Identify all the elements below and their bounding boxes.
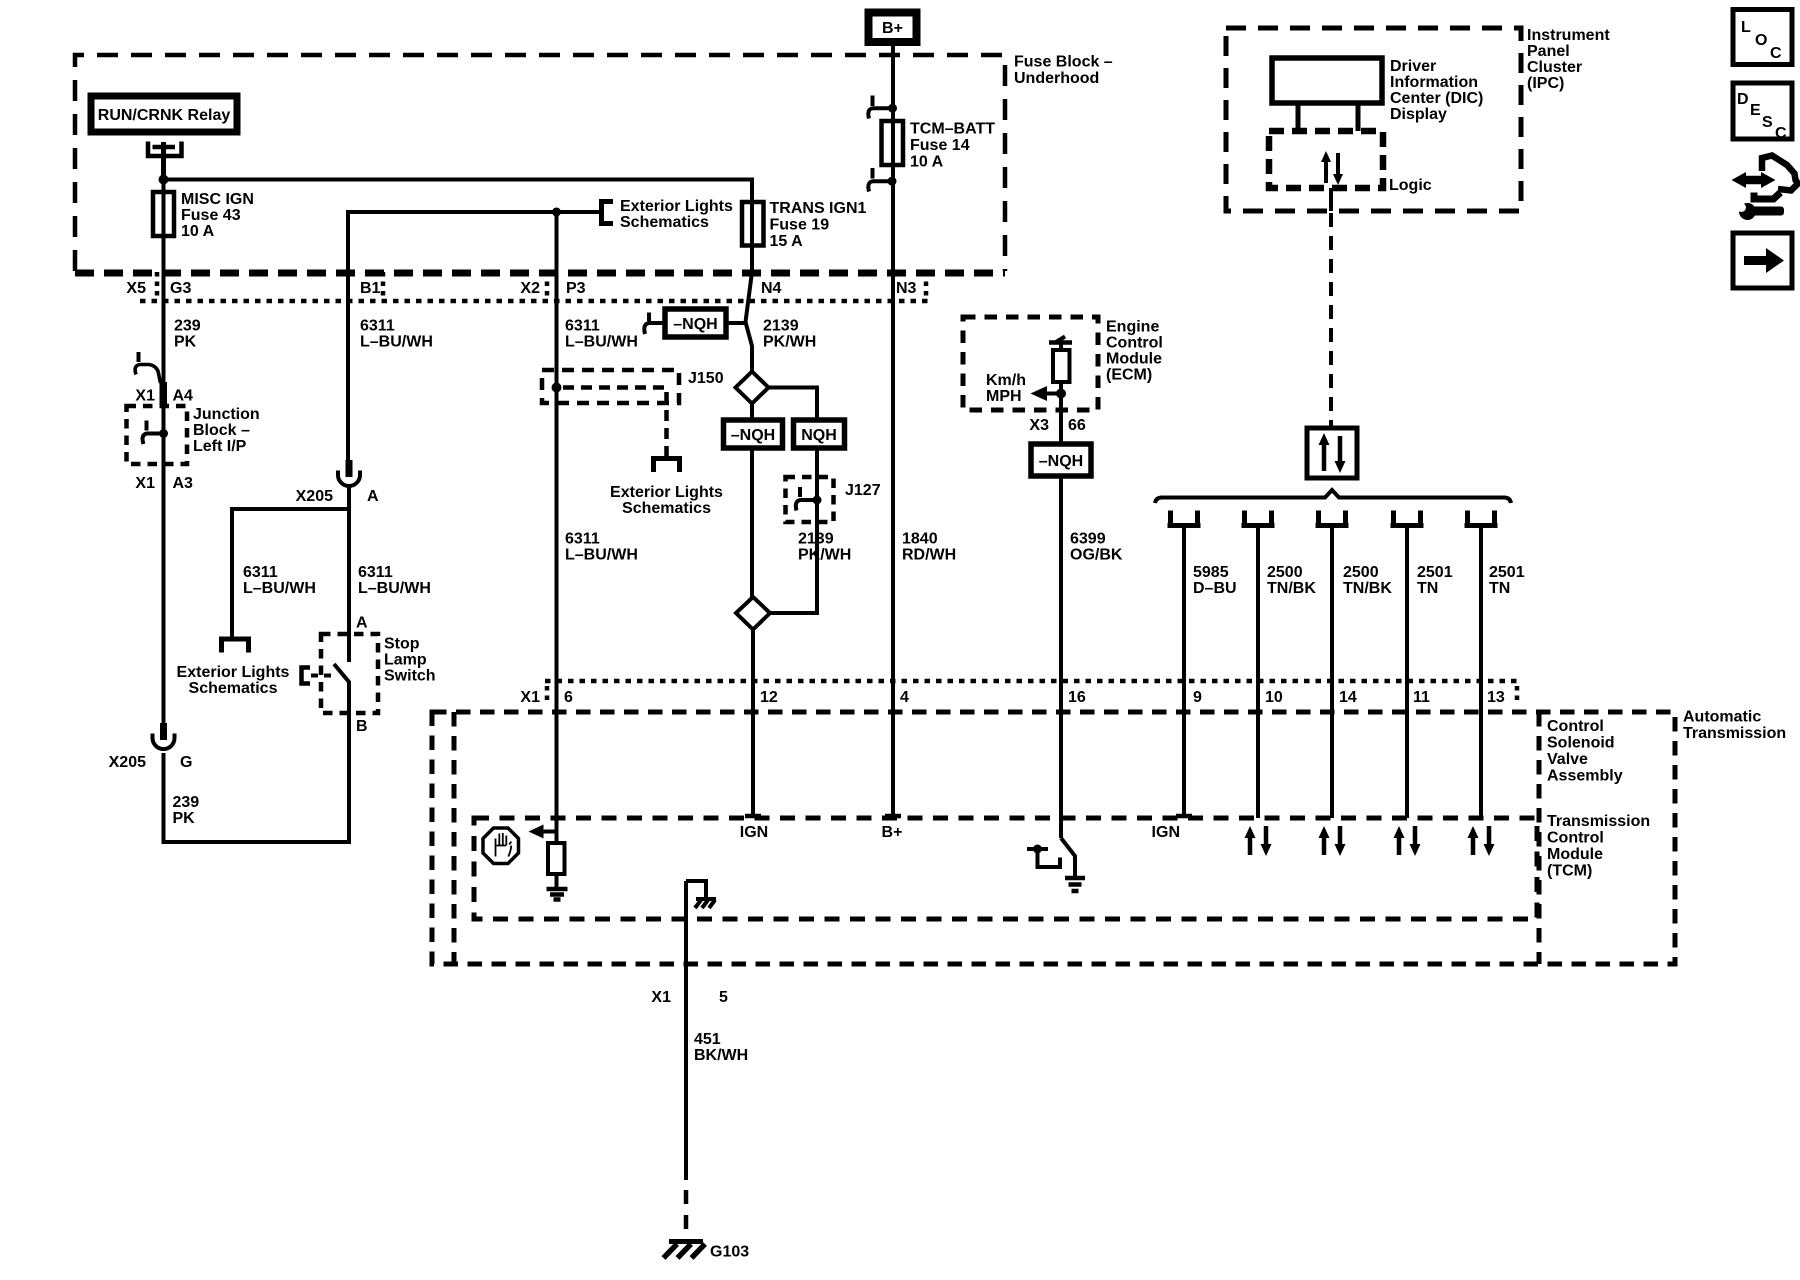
svg-text:OG/BK: OG/BK bbox=[1070, 547, 1123, 564]
wire 6311 L-BU/WH B1 branch bbox=[348, 212, 601, 460]
label 239 PK lower bbox=[173, 794, 200, 827]
svg-text:G103: G103 bbox=[710, 1244, 749, 1261]
svg-text:2501: 2501 bbox=[1489, 564, 1525, 581]
svg-text:4: 4 bbox=[900, 689, 909, 706]
node: relay output junction bbox=[159, 175, 169, 185]
relay contact symbol bbox=[148, 142, 182, 180]
svg-text:PK/WH: PK/WH bbox=[798, 547, 851, 564]
node: diamond splice upper bbox=[736, 372, 769, 404]
junction block left I/P bbox=[127, 406, 260, 473]
chassis ground in TCM bbox=[686, 881, 716, 908]
terminal flare IGN bbox=[745, 814, 761, 819]
ground in TCM (pin 16) bbox=[1065, 878, 1085, 891]
label 6311 L-BU/WH (branch) bbox=[243, 564, 316, 597]
svg-text:Block –: Block – bbox=[193, 422, 250, 439]
fuse F43 MISC IGN bbox=[153, 180, 254, 241]
svg-text:Driver: Driver bbox=[1390, 58, 1436, 75]
svg-text:A4: A4 bbox=[173, 388, 194, 405]
svg-text:1840: 1840 bbox=[902, 531, 938, 548]
svg-text:S: S bbox=[1762, 114, 1773, 131]
terminal flare B+ bbox=[885, 814, 901, 819]
connector clip X1 A4 bbox=[135, 352, 167, 406]
arrows solenoid pin11 bbox=[1394, 826, 1421, 856]
svg-text:TRANS IGN1: TRANS IGN1 bbox=[770, 200, 867, 217]
svg-text:Instrument: Instrument bbox=[1527, 27, 1610, 44]
svg-text:TN: TN bbox=[1489, 580, 1510, 597]
label 6311 L-BU/WH (P3) bbox=[565, 318, 638, 351]
svg-text:RD/WH: RD/WH bbox=[902, 547, 956, 564]
symbol NQH (right) bbox=[794, 420, 845, 448]
TCM labels bbox=[1547, 718, 1650, 880]
wire 2501 TN a bbox=[1405, 527, 1409, 818]
terminal pin 11 bbox=[1391, 511, 1424, 526]
wire: splice to stop lamp A bbox=[347, 486, 351, 662]
svg-text:A: A bbox=[356, 615, 368, 632]
logic block bbox=[1269, 131, 1432, 194]
connector separators row2 bbox=[547, 686, 1517, 704]
svg-text:6311: 6311 bbox=[358, 564, 393, 581]
TCM inner solenoid box bbox=[474, 818, 1537, 919]
svg-text:TN/BK: TN/BK bbox=[1343, 580, 1392, 597]
ground G103 bbox=[664, 1242, 750, 1261]
svg-text:Schematics: Schematics bbox=[620, 214, 709, 231]
svg-text:Lamp: Lamp bbox=[384, 652, 427, 669]
svg-text:6399: 6399 bbox=[1070, 531, 1106, 548]
svg-text:Exterior Lights: Exterior Lights bbox=[177, 664, 290, 681]
svg-text:Fuse 14: Fuse 14 bbox=[910, 137, 970, 154]
sensor element in ECM bbox=[1049, 337, 1072, 383]
svg-text:Center (DIC): Center (DIC) bbox=[1390, 90, 1483, 107]
svg-text:MPH: MPH bbox=[986, 388, 1022, 405]
svg-text:Km/h: Km/h bbox=[986, 372, 1026, 389]
fuse clip upper bbox=[868, 96, 897, 119]
svg-text:Information: Information bbox=[1390, 74, 1478, 91]
wire 239 PK upper segment bbox=[162, 236, 166, 384]
svg-text:239: 239 bbox=[174, 318, 201, 335]
label 239 PK bbox=[174, 318, 201, 351]
fuse block underhood box bbox=[75, 55, 1005, 273]
terminal pin 10 bbox=[1242, 511, 1275, 526]
svg-text:N4: N4 bbox=[761, 280, 782, 297]
svg-text:16: 16 bbox=[1068, 689, 1086, 706]
svg-text:G3: G3 bbox=[170, 280, 191, 297]
label 2500 TN/BK a bbox=[1267, 564, 1316, 597]
svg-text:5985: 5985 bbox=[1193, 564, 1229, 581]
svg-text:9: 9 bbox=[1193, 689, 1202, 706]
switch S1 stop lamp bbox=[302, 615, 436, 736]
svg-text:C: C bbox=[1770, 45, 1782, 62]
connector separators row1 bbox=[157, 272, 926, 300]
svg-text:B+: B+ bbox=[882, 20, 903, 37]
label 5985 D-BU bbox=[1193, 564, 1237, 597]
svg-text:B: B bbox=[356, 718, 368, 735]
wire 2501 TN b bbox=[1479, 527, 1483, 818]
svg-text:Control: Control bbox=[1547, 718, 1604, 735]
svg-text:6311: 6311 bbox=[565, 531, 600, 548]
wire branch via NQH bbox=[769, 388, 818, 614]
svg-text:451: 451 bbox=[694, 1031, 721, 1048]
fuse F14 TCM-BATT bbox=[882, 121, 996, 193]
svg-text:Transmission: Transmission bbox=[1683, 725, 1786, 742]
wire 6399 OG/BK bbox=[1059, 382, 1063, 838]
svg-text:Switch: Switch bbox=[384, 668, 436, 685]
node: diamond splice lower bbox=[736, 597, 770, 630]
bracket: exterior lights schematics (left) bbox=[177, 639, 290, 697]
svg-text:D–BU: D–BU bbox=[1193, 580, 1237, 597]
svg-text:D: D bbox=[1737, 91, 1749, 108]
switch to ground in TCM (pin 16) bbox=[1027, 838, 1075, 878]
svg-text:L–BU/WH: L–BU/WH bbox=[243, 580, 316, 597]
svg-text:(TCM): (TCM) bbox=[1547, 863, 1592, 880]
module ECM box bbox=[963, 317, 1163, 410]
svg-text:L–BU/WH: L–BU/WH bbox=[360, 334, 433, 351]
harness connector line row1 bbox=[140, 299, 933, 304]
label 6311 L-BU/WH (B1) bbox=[360, 318, 433, 351]
svg-text:P3: P3 bbox=[566, 280, 586, 297]
svg-text:Schematics: Schematics bbox=[622, 500, 711, 517]
svg-text:–NQH: –NQH bbox=[1039, 453, 1083, 470]
svg-text:X2: X2 bbox=[520, 280, 540, 297]
wire: B+ to TCM-BATT fuse bbox=[891, 46, 895, 125]
connector row2 pin labels bbox=[520, 689, 1504, 706]
svg-text:J127: J127 bbox=[845, 482, 881, 499]
svg-text:Panel: Panel bbox=[1527, 43, 1570, 60]
svg-text:6311: 6311 bbox=[360, 318, 395, 335]
icon DESC box bbox=[1733, 83, 1792, 142]
splice pack J150 bbox=[542, 370, 724, 447]
wire 2500 TN/BK a bbox=[1256, 527, 1260, 818]
arrows solenoid pin10 bbox=[1245, 826, 1272, 856]
svg-text:Valve: Valve bbox=[1547, 751, 1588, 768]
svg-text:12: 12 bbox=[760, 689, 778, 706]
svg-text:14: 14 bbox=[1339, 689, 1357, 706]
wire: serial data (dashed) bbox=[1329, 213, 1333, 428]
svg-text:2501: 2501 bbox=[1417, 564, 1453, 581]
label 451 BK/WH bbox=[694, 1031, 748, 1064]
wire: relay bus to TRANS IGN1 bbox=[164, 180, 753, 203]
svg-text:2500: 2500 bbox=[1267, 564, 1303, 581]
bracket: exterior lights schematics (top) bbox=[599, 198, 733, 231]
connector labels X1 5 bbox=[651, 989, 728, 1006]
fuse F19 TRANS IGN1 bbox=[742, 200, 867, 250]
svg-text:(IPC): (IPC) bbox=[1527, 75, 1564, 92]
wire 2139 PK/WH upper bbox=[746, 246, 753, 373]
label 2139 PK/WH lower bbox=[798, 531, 851, 564]
label B+ pin4 bbox=[882, 824, 903, 841]
svg-text:Assembly: Assembly bbox=[1547, 768, 1623, 785]
svg-text:239: 239 bbox=[173, 794, 200, 811]
bracket: exterior lights schematics (J150) bbox=[610, 447, 723, 517]
wire 5985 D-BU bbox=[1182, 527, 1186, 816]
svg-text:TCM–BATT: TCM–BATT bbox=[910, 121, 995, 138]
svg-text:6: 6 bbox=[564, 689, 573, 706]
node: X2 tap junction bbox=[552, 208, 561, 217]
svg-text:Cluster: Cluster bbox=[1527, 59, 1582, 76]
svg-text:NQH: NQH bbox=[801, 427, 837, 444]
wire: X205 G to stop lamp switch B bbox=[164, 711, 350, 842]
module IPC box bbox=[1226, 27, 1610, 211]
svg-text:A: A bbox=[367, 488, 379, 505]
svg-text:E: E bbox=[1750, 102, 1761, 119]
svg-text:PK: PK bbox=[174, 334, 197, 351]
battery feed B+ box bbox=[869, 13, 917, 43]
svg-text:Left I/P: Left I/P bbox=[193, 438, 247, 455]
svg-text:X1: X1 bbox=[651, 989, 671, 1006]
svg-text:MISC IGN: MISC IGN bbox=[181, 191, 254, 208]
brace bbox=[1155, 490, 1511, 503]
svg-text:X3: X3 bbox=[1029, 417, 1049, 434]
svg-text:2500: 2500 bbox=[1343, 564, 1379, 581]
terminal pin 9 bbox=[1168, 511, 1201, 526]
svg-text:X1: X1 bbox=[135, 388, 155, 405]
wire: logic to IPC edge bbox=[1329, 188, 1333, 211]
label 6311 L-BU/WH (switch) bbox=[358, 564, 431, 597]
svg-text:Control: Control bbox=[1547, 830, 1604, 847]
svg-text:5: 5 bbox=[719, 989, 728, 1006]
wire 2139 PK/WH to TCM IGN bbox=[751, 630, 755, 817]
wire 239 PK to X205 G bbox=[162, 464, 166, 724]
svg-text:TN: TN bbox=[1417, 580, 1438, 597]
svg-text:X1: X1 bbox=[135, 475, 155, 492]
splice J127 bbox=[786, 477, 881, 522]
svg-text:PK/WH: PK/WH bbox=[763, 334, 816, 351]
symbol -NQH (left) bbox=[724, 420, 783, 448]
svg-text:15 A: 15 A bbox=[770, 233, 804, 250]
symbol -NQH (N4) bbox=[644, 309, 745, 337]
svg-text:Fuse Block –: Fuse Block – bbox=[1014, 54, 1113, 71]
arrows solenoid pin13 bbox=[1468, 826, 1495, 856]
label 6399 OG/BK bbox=[1070, 531, 1123, 564]
connector labels X1 A3 bbox=[135, 475, 193, 492]
arrow: speed signal bbox=[1031, 386, 1067, 401]
symbol -NQH (ECM) bbox=[1031, 444, 1091, 476]
svg-text:66: 66 bbox=[1068, 417, 1086, 434]
terminal flare IGN 2 bbox=[1176, 814, 1192, 819]
svg-text:Exterior Lights: Exterior Lights bbox=[610, 484, 723, 501]
svg-text:Exterior Lights: Exterior Lights bbox=[620, 198, 733, 215]
wire between diamonds bbox=[750, 404, 754, 598]
icon: stop hand octagon bbox=[483, 828, 519, 864]
svg-text:6311: 6311 bbox=[243, 564, 278, 581]
label Km/h MPH bbox=[986, 372, 1026, 405]
harness connector line row2 bbox=[545, 679, 1518, 684]
svg-text:G: G bbox=[180, 754, 192, 771]
svg-text:10: 10 bbox=[1265, 689, 1283, 706]
svg-text:A3: A3 bbox=[173, 475, 194, 492]
svg-text:(ECM): (ECM) bbox=[1106, 367, 1152, 384]
connector row: fuse block pins bbox=[126, 280, 916, 297]
svg-text:–NQH: –NQH bbox=[731, 427, 775, 444]
resistor in TCM bbox=[548, 843, 565, 887]
splice X205 G bbox=[109, 723, 193, 771]
label 1840 RD/WH bbox=[902, 531, 956, 564]
svg-text:Display: Display bbox=[1390, 106, 1447, 123]
svg-text:Fuse 19: Fuse 19 bbox=[770, 217, 830, 234]
svg-text:13: 13 bbox=[1487, 689, 1505, 706]
fuse block label bbox=[1014, 54, 1113, 88]
svg-text:Module: Module bbox=[1106, 351, 1162, 368]
svg-text:Junction: Junction bbox=[193, 406, 260, 423]
svg-text:X5: X5 bbox=[126, 280, 146, 297]
svg-text:IGN: IGN bbox=[1152, 824, 1180, 841]
svg-text:X205: X205 bbox=[296, 488, 333, 505]
label 2500 TN/BK b bbox=[1343, 564, 1392, 597]
module TCM outer box (automatic transmission) bbox=[432, 709, 1786, 965]
ground in TCM (pin 6) bbox=[547, 889, 568, 900]
svg-text:C: C bbox=[1775, 125, 1787, 142]
svg-text:Transmission: Transmission bbox=[1547, 813, 1650, 830]
svg-text:IGN: IGN bbox=[740, 824, 768, 841]
svg-text:RUN/CRNK Relay: RUN/CRNK Relay bbox=[98, 107, 231, 124]
terminal pin 13 bbox=[1465, 511, 1498, 526]
connector labels X3 66 bbox=[1029, 417, 1085, 434]
svg-text:L: L bbox=[1741, 19, 1751, 36]
label IGN pin9 bbox=[1152, 824, 1180, 841]
svg-text:10 A: 10 A bbox=[910, 154, 944, 171]
fuse clip lower bbox=[868, 168, 896, 192]
svg-text:TN/BK: TN/BK bbox=[1267, 580, 1316, 597]
icon LOC box bbox=[1733, 10, 1792, 65]
wire 6311 L-BU/WH P3 bbox=[555, 212, 559, 843]
wire to ground (dashed) bbox=[684, 1190, 689, 1240]
icon forward arrow box bbox=[1733, 233, 1792, 288]
svg-text:Control: Control bbox=[1106, 335, 1163, 352]
svg-text:X1: X1 bbox=[520, 689, 540, 706]
terminal pin 14 bbox=[1316, 511, 1349, 526]
svg-text:Fuse 43: Fuse 43 bbox=[181, 207, 241, 224]
svg-text:Solenoid: Solenoid bbox=[1547, 735, 1615, 752]
svg-text:L–BU/WH: L–BU/WH bbox=[358, 580, 431, 597]
svg-text:B+: B+ bbox=[882, 824, 903, 841]
arrow: brake signal bbox=[529, 825, 557, 839]
arrows solenoid pin14 bbox=[1319, 826, 1346, 856]
label 6311 L-BU/WH (P3 lower) bbox=[565, 531, 638, 564]
connector labels X1 A4 bbox=[135, 388, 193, 405]
svg-text:Automatic: Automatic bbox=[1683, 709, 1761, 726]
svg-text:11: 11 bbox=[1413, 689, 1430, 706]
svg-text:BK/WH: BK/WH bbox=[694, 1047, 748, 1064]
icon wiring repair bbox=[1732, 156, 1799, 221]
svg-text:2139: 2139 bbox=[798, 531, 834, 548]
svg-text:O: O bbox=[1755, 32, 1767, 49]
wire 2500 TN/BK b bbox=[1330, 527, 1334, 818]
display DIC bbox=[1272, 58, 1483, 131]
svg-text:J150: J150 bbox=[688, 370, 724, 387]
svg-text:X205: X205 bbox=[109, 754, 146, 771]
svg-text:Engine: Engine bbox=[1106, 319, 1159, 336]
label 2501 TN a bbox=[1417, 564, 1453, 597]
svg-text:N3: N3 bbox=[896, 280, 917, 297]
svg-text:6311: 6311 bbox=[565, 318, 600, 335]
splice X205 A bbox=[296, 460, 379, 505]
svg-text:2139: 2139 bbox=[763, 318, 799, 335]
svg-text:Module: Module bbox=[1547, 846, 1603, 863]
relay K1 RUN/CRNK bbox=[91, 96, 237, 132]
svg-text:Stop: Stop bbox=[384, 636, 420, 653]
svg-text:L–BU/WH: L–BU/WH bbox=[565, 334, 638, 351]
svg-text:L–BU/WH: L–BU/WH bbox=[565, 547, 638, 564]
svg-text:Logic: Logic bbox=[1389, 177, 1432, 194]
wire 451 BK/WH bbox=[684, 881, 688, 1180]
svg-text:PK: PK bbox=[173, 810, 196, 827]
svg-text:B1: B1 bbox=[360, 280, 381, 297]
label IGN pin12 bbox=[740, 824, 768, 841]
label 2139 PK/WH bbox=[763, 318, 816, 351]
svg-text:Underhood: Underhood bbox=[1014, 70, 1099, 87]
wire 1840 RD/WH bbox=[891, 192, 895, 816]
svg-text:10 A: 10 A bbox=[181, 223, 215, 240]
label 2501 TN b bbox=[1489, 564, 1525, 597]
svg-text:–NQH: –NQH bbox=[673, 316, 717, 333]
wire: branch to exterior lights bbox=[232, 509, 349, 637]
serial data symbol box bbox=[1307, 428, 1357, 478]
svg-text:Schematics: Schematics bbox=[189, 680, 278, 697]
